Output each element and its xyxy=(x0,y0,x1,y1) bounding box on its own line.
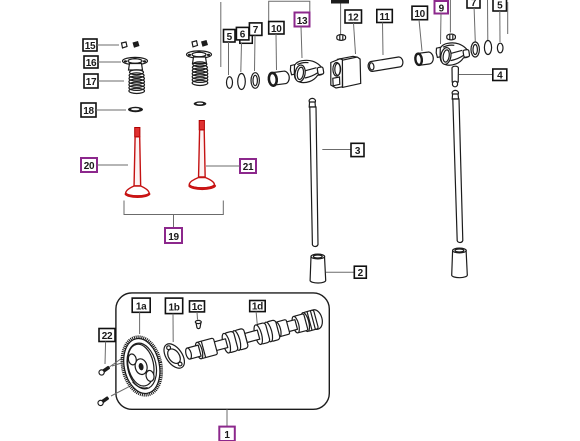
svg-text:1a: 1a xyxy=(136,302,147,313)
svg-text:16: 16 xyxy=(86,58,97,69)
label 15 xyxy=(83,39,97,52)
svg-text:22: 22 xyxy=(102,331,113,342)
o-ring (5b) xyxy=(497,43,503,53)
wire 17 leader xyxy=(98,80,124,82)
spring retainer xyxy=(187,51,212,64)
wire 10b leader xyxy=(419,20,422,51)
lash adjuster (4) xyxy=(452,66,458,87)
rocker bushing (10b) xyxy=(415,52,434,65)
bracket 10-13 xyxy=(269,1,310,21)
svg-text:15: 15 xyxy=(85,41,96,52)
svg-text:1b: 1b xyxy=(168,303,179,314)
rocker shaft (11) xyxy=(368,57,403,71)
cam shaft section xyxy=(214,339,228,351)
bolt 22 upper xyxy=(98,353,127,376)
wire 13 leader xyxy=(301,27,302,59)
label 7 xyxy=(249,23,262,36)
svg-text:17: 17 xyxy=(86,77,97,88)
cam lobe D xyxy=(262,320,280,343)
pushrod left shaft (3) xyxy=(310,107,318,247)
label 19 xyxy=(165,228,182,243)
wire 1b leader xyxy=(172,314,174,342)
valve keeper (15) left xyxy=(122,42,128,48)
wire 1a leader xyxy=(139,312,141,334)
svg-text:5: 5 xyxy=(497,0,503,11)
label 1d xyxy=(250,301,266,313)
wire 3 leader xyxy=(322,149,351,151)
label 13 xyxy=(295,13,310,27)
valve stem seal xyxy=(194,101,207,106)
svg-text:7: 7 xyxy=(253,25,259,36)
cam front journal xyxy=(194,338,218,360)
camshaft (1d) xyxy=(183,308,324,364)
label 9 xyxy=(435,1,449,14)
cam end journal xyxy=(300,310,319,332)
svg-text:5: 5 xyxy=(227,32,233,43)
label 1a xyxy=(132,298,150,312)
label 7 second xyxy=(467,0,480,9)
label 12 xyxy=(345,10,362,24)
adjuster nut xyxy=(447,34,456,40)
cam lobe B xyxy=(231,328,249,351)
svg-text:21: 21 xyxy=(243,162,254,173)
wire 6 leader xyxy=(240,43,243,72)
wire 18 leader xyxy=(96,109,126,111)
wire 1d leader xyxy=(256,312,257,326)
wire 20 leader xyxy=(97,164,128,166)
svg-text:1c: 1c xyxy=(192,302,203,313)
wire 2 leader xyxy=(326,271,354,273)
label 4 xyxy=(493,69,507,82)
svg-text:19: 19 xyxy=(168,232,179,243)
bolt 22 lower xyxy=(97,395,110,406)
svg-text:10: 10 xyxy=(271,24,282,35)
label 10 xyxy=(269,22,284,35)
cam lobe A xyxy=(220,331,238,354)
timing gear (1a) xyxy=(117,333,167,399)
wire 7b leader xyxy=(474,8,475,42)
wire 11 leader xyxy=(382,23,385,56)
label 1c xyxy=(190,301,205,313)
wire 8 leader xyxy=(340,4,342,35)
seal ring (6) xyxy=(238,74,246,90)
wire 12 leader xyxy=(354,23,356,54)
wire cut leader (top left) xyxy=(220,2,222,67)
intake valve (20) xyxy=(125,128,150,198)
washer (7) xyxy=(251,73,259,89)
wire nut leader (cut) xyxy=(449,0,451,33)
wire bolt1 to gear xyxy=(112,360,133,367)
label 22 xyxy=(99,329,115,343)
thrust plate (1b) xyxy=(160,340,189,372)
label 16 xyxy=(84,56,98,69)
wire 16 leader xyxy=(98,61,121,63)
svg-text:10: 10 xyxy=(414,9,425,20)
wire cut label 8 bar xyxy=(331,0,349,4)
dowel pin (1c) xyxy=(195,320,201,328)
spring retainer (16) xyxy=(123,57,148,70)
o-ring (5) xyxy=(227,77,233,89)
label 11 xyxy=(377,10,393,24)
label 6 xyxy=(236,27,249,40)
svg-text:13: 13 xyxy=(297,16,308,27)
svg-text:6: 6 xyxy=(240,30,246,41)
pushrod right shaft xyxy=(453,99,463,243)
valve keeper left xyxy=(192,41,198,47)
tappet cup right xyxy=(452,248,468,278)
svg-text:1d: 1d xyxy=(252,302,263,313)
label 17 xyxy=(84,74,98,88)
cam shaft section xyxy=(245,330,260,342)
wire cut leader ring xyxy=(487,0,489,40)
wire 1c leader xyxy=(196,312,199,320)
exhaust valve (21) xyxy=(189,121,216,190)
valve keeper right xyxy=(201,40,208,47)
cam lobe C xyxy=(252,322,270,345)
svg-text:20: 20 xyxy=(84,161,95,172)
valve spring (17) xyxy=(129,70,145,94)
svg-text:2: 2 xyxy=(358,268,364,279)
label 20 xyxy=(81,158,97,172)
wire 5 leader xyxy=(228,42,230,75)
svg-text:3: 3 xyxy=(355,146,361,157)
label 18 xyxy=(81,103,96,117)
wire 10 leader xyxy=(275,34,278,70)
svg-text:4: 4 xyxy=(497,71,503,82)
wire 9 leader xyxy=(440,14,443,45)
rocker arm (13) xyxy=(290,60,324,82)
svg-text:9: 9 xyxy=(439,3,445,14)
svg-text:1: 1 xyxy=(224,430,230,441)
label 5 second xyxy=(493,0,507,11)
label 3 xyxy=(351,143,364,157)
adjuster nut (8) xyxy=(337,35,346,41)
wire 1 leader xyxy=(226,409,228,426)
valve stem seal (18) xyxy=(128,107,143,112)
camshaft group box xyxy=(116,293,329,409)
cam end cap xyxy=(308,308,324,330)
label 1 xyxy=(219,427,235,441)
cam ring group xyxy=(291,314,308,334)
wire 15 leader xyxy=(97,44,119,46)
cam shaft section xyxy=(286,320,297,332)
valve keeper (15) right xyxy=(133,41,140,48)
wire 22 leader xyxy=(104,342,107,365)
pushrod left top cap xyxy=(309,98,315,107)
cam nose xyxy=(185,345,202,360)
svg-text:12: 12 xyxy=(348,13,359,24)
bracket for 19 xyxy=(124,201,223,229)
seal ring xyxy=(484,41,491,55)
pushrod right top cap xyxy=(452,90,459,99)
valve spring xyxy=(192,62,208,86)
cam journal 2 xyxy=(273,319,290,337)
label 5 xyxy=(224,30,236,43)
tappet cup (2) xyxy=(310,254,326,283)
label 10 second xyxy=(412,6,428,20)
wire 21 leader xyxy=(206,165,240,167)
washer (7b) xyxy=(471,42,479,57)
label 21 xyxy=(240,159,256,173)
svg-text:11: 11 xyxy=(380,12,391,23)
label 2 xyxy=(354,266,366,279)
svg-text:7: 7 xyxy=(471,0,477,9)
wire bolt2 to gear xyxy=(111,377,149,397)
wire 5b leader xyxy=(499,11,501,42)
wire cut leader right xyxy=(507,2,509,34)
wire 4 leader xyxy=(459,74,493,76)
rocker pivot boss (12) xyxy=(331,56,361,88)
label 1b xyxy=(165,298,182,314)
label 6 shadow box xyxy=(240,31,253,44)
rocker arm (9) xyxy=(436,43,470,65)
rocker bushing (10) xyxy=(268,71,289,86)
svg-text:18: 18 xyxy=(83,106,94,117)
wire 7 leader xyxy=(254,36,257,72)
